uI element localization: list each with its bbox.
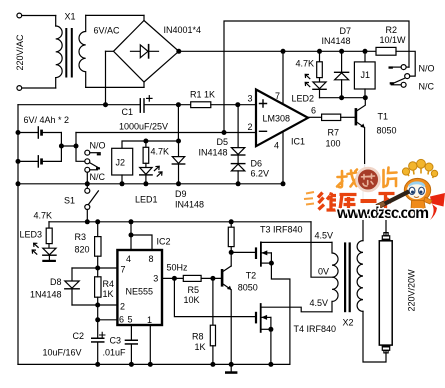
transformer X1 core (65, 28, 67, 78)
svg-text:R4: R4 (103, 279, 115, 289)
svg-text:1K: 1K (103, 289, 114, 299)
ground symbol (230, 364, 232, 371)
LED3 (43, 248, 56, 255)
svg-text:R7: R7 (328, 128, 340, 138)
op-amp plus sign (260, 100, 267, 107)
transformer X2 primary winding (332, 242, 338, 311)
wire LED2/D7/J1 bottom bus (320, 97, 366, 99)
terminal 220V bottom (17, 86, 22, 91)
svg-text:4.7K: 4.7K (34, 211, 53, 221)
wire R2 to pole (396, 51, 415, 76)
svg-text:IN4001*4: IN4001*4 (164, 25, 202, 35)
node pin4 bus (129, 219, 134, 224)
svg-text:1: 1 (147, 315, 152, 325)
resistor R5 (183, 275, 201, 281)
svg-text:8050: 8050 (238, 283, 258, 293)
watermark mascot (376, 159, 445, 220)
node C1/R1/D9 junction (176, 102, 181, 107)
wire right contact feed top (224, 21, 409, 133)
op-amp minus sign (260, 130, 267, 132)
wire LED3 branch (48, 222, 50, 228)
svg-text:S1: S1 (64, 196, 75, 206)
diode D9 (178, 141, 180, 157)
capacitor C3 (pin5) (130, 325, 132, 340)
svg-text:D7: D7 (340, 26, 352, 36)
switch S1 (86, 184, 88, 189)
node battery mid (59, 144, 64, 149)
wire mid bus (18, 183, 283, 185)
svg-text:IN4148: IN4148 (199, 148, 228, 158)
wire secondary bottom to bridge (86, 86, 144, 88)
LED1 arrows (154, 166, 159, 170)
svg-text:2: 2 (120, 302, 125, 312)
resistor R3 (97, 222, 99, 237)
transformer X1 secondary winding (79, 15, 86, 87)
node R8 bottom (210, 362, 215, 367)
node D7 bottom (339, 95, 344, 100)
wire (55, 16, 57, 27)
watermark halo (311, 187, 401, 212)
ground LED3 (42, 260, 56, 262)
svg-text:0V: 0V (318, 267, 329, 277)
node S1 bottom (85, 219, 90, 224)
svg-text:50Hz: 50Hz (167, 263, 189, 273)
wire pin7 line (72, 267, 117, 269)
svg-text:4.7K: 4.7K (151, 147, 170, 157)
node pin7 bus (281, 49, 286, 54)
wire bridge left vertex (106, 50, 114, 52)
wire T3 gate (231, 251, 255, 253)
transformer X2 core (344, 242, 346, 312)
LED2 arrows (305, 74, 310, 78)
terminal 220V top (17, 13, 22, 18)
resistor R2 (376, 47, 396, 55)
node pin2 junction (222, 130, 227, 135)
svg-text:6V/ 4Ah * 2: 6V/ 4Ah * 2 (24, 115, 70, 125)
svg-text:LED2: LED2 (292, 94, 315, 104)
wire pin3 output (162, 277, 183, 279)
bridge diode symbol (131, 50, 159, 52)
svg-text:IN4148: IN4148 (175, 200, 204, 210)
wire (341, 116, 355, 118)
zener D6 (237, 155, 239, 164)
svg-text:T3 IRF840: T3 IRF840 (260, 225, 303, 235)
op-amp U1 LM308 triangle (256, 90, 308, 147)
svg-text:R3: R3 (75, 232, 87, 242)
LED1 (140, 168, 152, 175)
node pin3 junction (235, 102, 240, 107)
wire pins 4+8 (130, 222, 132, 250)
wire R8 branch (212, 278, 214, 325)
svg-text:220V/20W: 220V/20W (407, 269, 417, 312)
node T4 source (268, 327, 273, 332)
node C3 bottom (129, 362, 134, 367)
wire C1 line (18, 104, 140, 106)
svg-text:820: 820 (75, 245, 90, 255)
svg-text:4.5V: 4.5V (310, 298, 329, 308)
wire X2 secondary bottom to lamp (363, 311, 386, 362)
node pin1 bottom (148, 362, 153, 367)
svg-text:LED3: LED3 (20, 230, 43, 240)
node T2 emitter bottom (229, 362, 234, 367)
svg-text:J1: J1 (361, 70, 371, 80)
svg-text:100: 100 (326, 139, 341, 149)
LED2 (313, 82, 326, 89)
node R5/T2 base (210, 276, 215, 281)
svg-text:C3: C3 (110, 336, 122, 346)
wire gate drive T4 (174, 278, 255, 316)
transformer X2 secondary winding (357, 241, 363, 312)
fluorescent tube 220V/20W (384, 233, 388, 236)
node pin4/8 link (129, 233, 134, 238)
svg-text:IN4148: IN4148 (322, 36, 351, 46)
capacitor C2 (97, 320, 99, 338)
wire T1 emitter down (364, 128, 366, 175)
left bus wire (17, 105, 19, 365)
svg-text:.01uF: .01uF (103, 348, 127, 358)
MOSFET T3 IRF840 (255, 247, 257, 259)
node T3 gate junction (229, 250, 234, 255)
relay contact J1 N/O (406, 66, 409, 68)
relay contact J1 pole (405, 74, 410, 79)
wire pin2 line (76, 132, 256, 134)
node bridge output (176, 49, 181, 54)
node C2 bottom (95, 362, 100, 367)
resistor 4.7K (LED2) (319, 51, 321, 62)
LED3 arrows (34, 243, 39, 247)
node pin7 junction (95, 266, 100, 271)
svg-text:6: 6 (119, 315, 124, 325)
node bridge left to C1 line (103, 102, 108, 107)
node mid bus left (16, 181, 21, 186)
svg-text:8: 8 (148, 254, 153, 264)
svg-text:1N4148: 1N4148 (30, 290, 62, 300)
node J1 bottom / T1 collector (363, 95, 368, 100)
svg-text:T1: T1 (378, 112, 389, 122)
svg-text:LED1: LED1 (135, 195, 158, 205)
node 4.7K top (317, 49, 322, 54)
transistor T1 8050 (355, 108, 358, 125)
relay contact J2 arm (90, 163, 100, 169)
wire T3 drain to X2 top tap (261, 241, 332, 243)
wire branch to lamp (363, 219, 386, 236)
wire N/C to mid bus (86, 172, 88, 184)
MOSFET T4 IRF840 (255, 312, 257, 324)
node pin6 junction (95, 317, 100, 322)
node 4.7K top (143, 139, 148, 144)
node T4 source bus (268, 362, 273, 367)
svg-text:6V/AC: 6V/AC (94, 26, 121, 36)
svg-text:10K: 10K (184, 295, 200, 305)
node J2 bottom (120, 181, 125, 186)
svg-text:220V/AC: 220V/AC (15, 34, 25, 71)
wire bottom bus (18, 363, 290, 365)
resistor 4.7K (LED3) (46, 228, 52, 244)
svg-text:N/C: N/C (419, 82, 435, 92)
svg-text:4: 4 (274, 141, 279, 151)
node J1 top (363, 49, 368, 54)
relay contact J2 N/C (85, 167, 90, 172)
battery 6V/4Ah bottom (18, 160, 38, 162)
relay contact J2 pole (85, 159, 90, 164)
resistor R1 (191, 102, 211, 108)
svg-text:IC1: IC1 (291, 137, 305, 147)
wire pin 4 (282, 132, 284, 184)
relay coil J1 (354, 62, 375, 89)
wire (22, 15, 56, 17)
node battery link (74, 144, 79, 149)
svg-text:6: 6 (311, 106, 316, 116)
bridge rectifier IN4001*4 diamond (114, 21, 179, 83)
wire T4 source to bottom bus (270, 329, 272, 364)
node pin2 junction (95, 303, 100, 308)
svg-text:LM308: LM308 (263, 114, 291, 124)
svg-text:D8: D8 (50, 277, 62, 287)
svg-text:X1: X1 (65, 12, 76, 22)
watermark speed dashes (304, 192, 314, 205)
wire J2 top bus (122, 141, 179, 148)
svg-text:D6: D6 (251, 159, 263, 169)
svg-text:1000uF/25V: 1000uF/25V (119, 122, 168, 132)
svg-text:8050: 8050 (377, 126, 397, 136)
node pin3 (172, 276, 177, 281)
wire 0V center tap feed (311, 222, 332, 277)
svg-text:X2: X2 (343, 318, 354, 328)
node R3 top (95, 219, 100, 224)
node S1 top (85, 181, 90, 186)
wire pin 7 (282, 51, 284, 104)
node D9 bottom (176, 181, 181, 186)
node pin4 bus (281, 181, 286, 186)
svg-text:6.2V: 6.2V (251, 169, 270, 179)
resistor R7 (322, 114, 341, 120)
wire relay pole feed (76, 133, 85, 162)
svg-text:3: 3 (247, 94, 252, 104)
svg-text:IC2: IC2 (157, 237, 171, 247)
svg-text:C2: C2 (73, 331, 85, 341)
watermark dzsc (304, 159, 445, 222)
wire (55, 78, 57, 88)
watermark glyph zhao (337, 170, 357, 188)
wire (22, 87, 56, 89)
capacitor C1 (140, 98, 141, 113)
svg-text:4.7K: 4.7K (296, 59, 315, 69)
wire battery mid link (61, 145, 76, 147)
svg-text:N/O: N/O (419, 64, 435, 74)
svg-text:C1: C1 (122, 107, 134, 117)
svg-text:4.5V: 4.5V (315, 231, 334, 241)
watermark text weikuyixia (318, 193, 395, 211)
node D7 top (339, 49, 344, 54)
svg-text:7: 7 (120, 265, 125, 275)
svg-text:R5: R5 (188, 285, 200, 295)
transformer X1 primary winding (56, 26, 62, 78)
resistor R6 (T2 collector) (230, 222, 232, 227)
wire T3 source to bottom bus (271, 263, 290, 364)
wire (145, 104, 191, 106)
wire pin1 (149, 325, 151, 364)
node battery left bottom (16, 159, 21, 164)
resistor R8 (210, 325, 215, 346)
svg-text:5: 5 (127, 315, 132, 325)
svg-text:T4 IRF840: T4 IRF840 (294, 324, 337, 334)
wire lower supply bus (49, 221, 311, 223)
wire D9 top from C1 node (177, 105, 179, 141)
svg-text:10uF/16V: 10uF/16V (43, 348, 82, 358)
svg-text:7: 7 (275, 91, 280, 101)
wire pin 6 output (308, 116, 322, 118)
svg-text:R1 1K: R1 1K (190, 90, 215, 100)
wire J2 bottom (121, 175, 123, 184)
svg-text:D9: D9 (175, 189, 187, 199)
svg-text:2: 2 (247, 122, 252, 132)
watermark glyph pian (384, 168, 397, 188)
node D9 top (176, 139, 181, 144)
node LED1 bottom (143, 181, 148, 186)
transistor T2 8050 (221, 269, 224, 287)
watermark seal circle (357, 168, 380, 191)
node battery left top (16, 130, 21, 135)
diode D7 (341, 51, 343, 72)
svg-text:D5: D5 (217, 137, 229, 147)
relay contact J2 N/O (85, 150, 90, 155)
wire T4 drain to X2 bottom tap (261, 307, 332, 312)
relay contact J1 N/C (401, 82, 406, 87)
svg-text:R8: R8 (192, 332, 204, 342)
svg-text:www.dzsc.com: www.dzsc.com (336, 205, 429, 222)
wire main top bus (179, 50, 376, 52)
resistor R4 (95, 277, 101, 297)
wire pin2 line (555) (72, 304, 117, 306)
svg-text:10/1W: 10/1W (380, 35, 407, 45)
svg-text:N/C: N/C (90, 172, 106, 182)
IC2 NE555 box (117, 250, 162, 325)
svg-text:R2: R2 (386, 25, 398, 35)
node T3 source (269, 261, 274, 266)
relay contact J1 arm (393, 78, 406, 84)
svg-text:4: 4 (126, 254, 131, 264)
relay coil J2 (112, 148, 133, 175)
wire (211, 104, 256, 106)
diode D5 (237, 105, 239, 148)
svg-text:1K: 1K (195, 342, 206, 352)
node R6 top (229, 219, 234, 224)
svg-text:J2: J2 (116, 158, 126, 168)
svg-text:N/O: N/O (90, 141, 106, 151)
svg-text:3: 3 (153, 274, 158, 284)
battery 6V/4Ah top (18, 132, 38, 134)
wire pin6 line (97, 305, 99, 320)
node D6 bottom (236, 181, 241, 186)
svg-text:NE555: NE555 (126, 287, 154, 297)
wire secondary top to bridge (86, 14, 144, 16)
svg-text:T2: T2 (246, 271, 257, 281)
diode D8 (parallel R4) (71, 268, 73, 281)
resistor 4.7K (LED1) (145, 141, 147, 147)
